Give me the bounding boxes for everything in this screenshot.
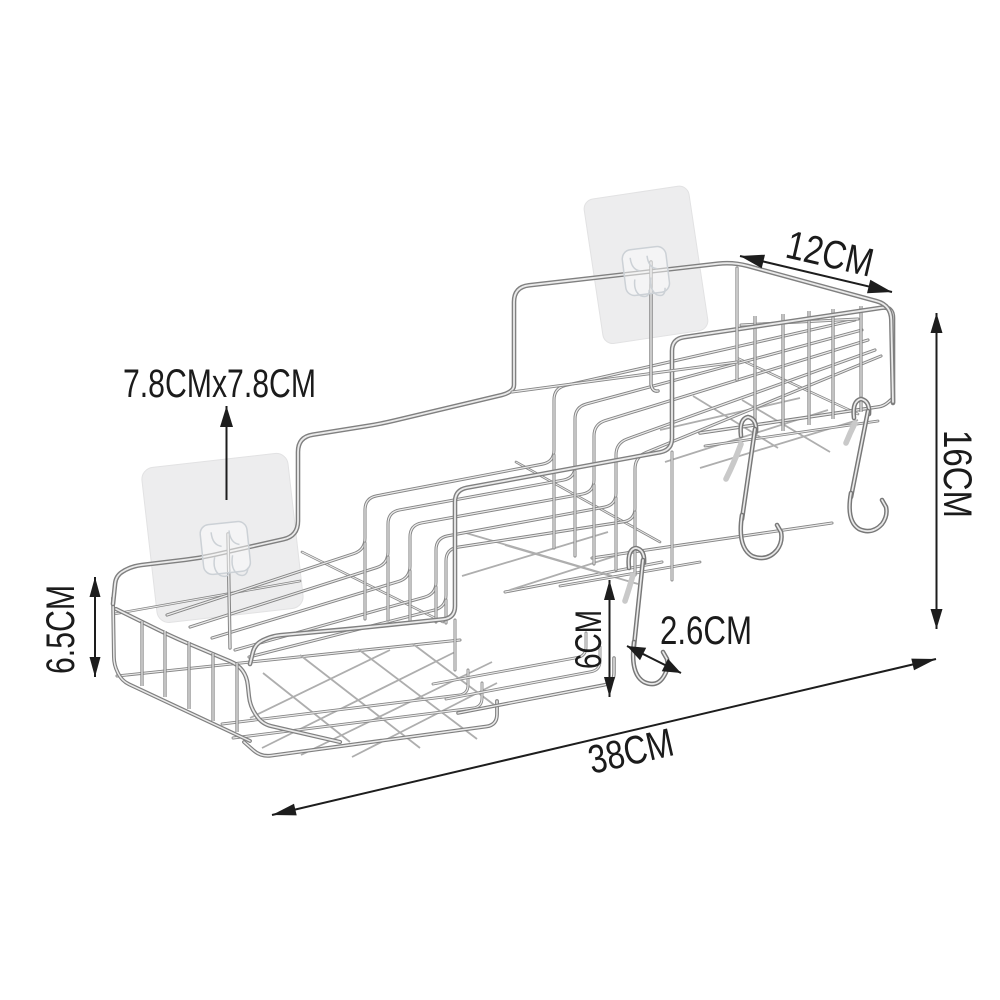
dimension arrow 6CM xyxy=(604,580,615,697)
back wall mid rail tier3 xyxy=(512,362,737,392)
staircase corner post k3p1 xyxy=(386,557,389,620)
right end wall slats xyxy=(755,306,861,438)
dimension arrow 12CM xyxy=(740,255,892,294)
arrow to left pad xyxy=(220,406,233,500)
dimension arrow 16CM xyxy=(931,313,943,629)
staircase corner post k0p1 xyxy=(444,600,447,623)
top pad back wire with curl xyxy=(651,262,658,391)
bottom long rail tier3 b xyxy=(560,562,700,586)
back wall bottom rail tier2 xyxy=(505,562,662,592)
bottom wire tier2 a xyxy=(446,647,600,699)
staircase corner post k2p1 xyxy=(408,571,411,621)
adhesive pad top 7.8x7.8 sticker xyxy=(583,185,709,345)
wall wire staircase k0 xyxy=(249,356,881,657)
wall wire staircase k2 xyxy=(212,340,868,638)
bottom wire tier1 b xyxy=(222,670,468,724)
bottom wire tier2 b xyxy=(433,633,586,684)
wall wire staircase k3 xyxy=(190,330,862,627)
back wall bottom rail tier1 xyxy=(117,640,460,676)
tier3 floor left edge xyxy=(737,358,858,414)
dimension arrow 2.6CM xyxy=(627,646,681,673)
staircase corner post k4p1 xyxy=(363,543,366,619)
s-hook right 2 xyxy=(846,399,887,531)
back wall right corner post xyxy=(735,268,738,380)
staircase corner post k3p2 xyxy=(573,471,576,556)
svg-text:16CM: 16CM xyxy=(935,430,979,518)
step depth wire tier1/2 xyxy=(302,552,443,622)
left end wall top rim with front corner drop xyxy=(116,609,340,742)
left end wall left edge and bottom edge xyxy=(113,598,250,741)
tier2/3 corner post xyxy=(671,452,674,580)
svg-text:6CM: 6CM xyxy=(568,610,609,669)
top pad hook button xyxy=(621,245,671,299)
back rail staircase with right end rim and post xyxy=(113,263,893,604)
hook rail right lower xyxy=(705,421,878,446)
left pad hook button xyxy=(199,521,251,580)
bottom long rail tier3 xyxy=(592,523,832,558)
wall wire staircase k4 xyxy=(167,320,855,615)
bottom front rail tier1 xyxy=(244,701,497,756)
s-hook middle xyxy=(625,548,668,684)
tier1/2 corner post xyxy=(454,620,457,670)
right end wall rim 2 xyxy=(741,319,858,325)
hook rail right xyxy=(700,398,893,433)
bottom front rail tier2 xyxy=(458,658,614,713)
svg-text:7.8CMx7.8CM: 7.8CMx7.8CM xyxy=(123,362,316,406)
bottom wire tier1 a xyxy=(233,683,482,738)
tier1 floor mesh xyxy=(250,644,497,757)
front rim staircase xyxy=(250,308,893,664)
svg-text:2.6CM: 2.6CM xyxy=(660,609,752,653)
left end wall slats xyxy=(142,621,237,732)
left pad back wire xyxy=(228,534,230,648)
dimension arrow 6.5CM xyxy=(90,577,101,677)
wall wire staircase k1 xyxy=(235,350,875,650)
step depth wire tier2/3 xyxy=(516,462,660,542)
back wall mid rail tier1 xyxy=(114,581,300,614)
adhesive pad left 7.8x7.8 sticker xyxy=(141,452,305,624)
staircase corner post k1p2 xyxy=(614,498,617,570)
s-hook right 1 xyxy=(726,417,782,558)
dimension arrow 38CM xyxy=(272,659,936,816)
staircase corner post k2p2 xyxy=(592,485,595,564)
svg-text:6.5CM: 6.5CM xyxy=(39,585,83,674)
staircase corner post k1p1 xyxy=(434,587,437,622)
tier2 floor mesh xyxy=(462,532,640,590)
staircase corner post k4p2 xyxy=(552,455,555,548)
tier3 floor mesh xyxy=(660,396,858,468)
staircase corner post k0p2 xyxy=(633,512,636,575)
